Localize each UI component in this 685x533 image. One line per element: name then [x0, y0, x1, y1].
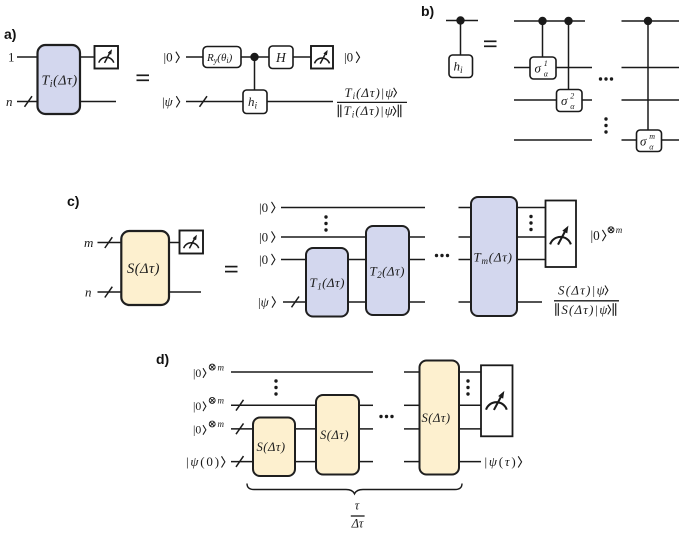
b mini wire	[446, 20, 478, 22]
d bus slash w3	[236, 423, 244, 434]
svg-text:d): d)	[156, 351, 169, 367]
svg-text:S(Δτ): S(Δτ)	[422, 411, 451, 425]
d wire3 seg5	[459, 428, 481, 430]
c wire2 seg2	[409, 236, 425, 238]
gate T_m(dt)	[471, 197, 517, 316]
b wire 2 group1 left	[514, 67, 530, 69]
d wire2 seg2	[359, 404, 373, 406]
fraction c denominator	[556, 303, 616, 317]
svg-text:Ti(Δτ): Ti(Δτ)	[42, 73, 78, 90]
svg-text:T1(Δτ): T1(Δτ)	[310, 275, 345, 291]
svg-text:τ: τ	[355, 499, 360, 513]
b vertical 3	[647, 21, 649, 130]
c wire4 seg3	[409, 301, 425, 303]
wire 1 mid	[80, 56, 94, 58]
b mini vertical wire	[460, 21, 462, 56]
wire n left	[17, 101, 38, 103]
d wire3 seg4	[404, 428, 420, 430]
d bus slash w4	[236, 456, 244, 467]
svg-text:m: m	[218, 396, 225, 406]
svg-text:Ti(Δτ)|ψ: Ti(Δτ)|ψ	[345, 86, 395, 101]
svg-text:m: m	[649, 132, 655, 141]
b control dot 2	[564, 17, 572, 25]
b wire 3 group1 left	[514, 99, 557, 101]
meter box a-right	[311, 46, 333, 69]
svg-text:|0: |0	[193, 366, 201, 380]
c bus slash psi	[292, 297, 300, 308]
fraction tau bar	[351, 515, 365, 517]
c wire4 seg4	[459, 301, 472, 303]
svg-text:|ψ(τ): |ψ(τ)	[485, 454, 518, 469]
ket |psi> input a	[162, 94, 180, 109]
svg-text:1: 1	[8, 50, 15, 65]
b vdots	[604, 117, 607, 133]
wire n right	[80, 101, 116, 103]
wire m left	[98, 242, 122, 244]
svg-text:m: m	[218, 419, 225, 429]
gate Ry(theta_i)	[203, 47, 241, 68]
svg-text:c): c)	[67, 193, 79, 209]
wire a2-3	[293, 56, 311, 58]
d wire4 seg2	[295, 461, 316, 463]
d wire2 seg1	[231, 404, 316, 406]
d wire2 seg3	[404, 404, 420, 406]
svg-text:σ: σ	[640, 133, 647, 148]
c wire3 seg2	[348, 259, 366, 261]
gate sigma_a^2	[557, 90, 583, 112]
fraction a numerator T_i(dt)|psi>	[345, 86, 397, 101]
svg-text:Tm(Δτ): Tm(Δτ)	[474, 249, 513, 265]
meter box c-left	[180, 231, 204, 254]
svg-text:|0: |0	[193, 399, 201, 413]
svg-text:m: m	[616, 225, 623, 235]
d vdots left	[274, 379, 277, 395]
gate sigma_a^1	[530, 57, 556, 79]
control dot	[250, 53, 258, 61]
b wire 1 group2	[622, 20, 680, 22]
b wire 2 group1 right	[556, 67, 592, 69]
ket |0> otimes m output c	[591, 225, 623, 243]
wire a3-2	[267, 101, 333, 103]
ket |0> otimes m d2	[193, 396, 225, 414]
b wire 2 group2	[622, 67, 680, 69]
c wire4 seg5	[517, 301, 542, 303]
bus slash n c	[105, 287, 113, 298]
d wire4 seg5	[459, 461, 481, 463]
fraction c numerator S(dt)|psi>	[558, 284, 608, 298]
svg-text:|ψ(0): |ψ(0)	[186, 454, 221, 469]
svg-text:|ψ: |ψ	[258, 294, 270, 309]
svg-text:|0: |0	[259, 252, 268, 267]
svg-text:S(Δτ): S(Δτ)	[320, 428, 349, 442]
wire 1 left	[17, 56, 38, 58]
ket |psi(tau)> output d	[485, 454, 522, 469]
b control dot 3	[644, 17, 652, 25]
svg-text:Δτ: Δτ	[351, 517, 364, 531]
fraction c bar	[554, 300, 619, 302]
gate h_i b	[449, 55, 473, 78]
svg-text:Ry(θi): Ry(θi)	[206, 52, 233, 65]
svg-text:|0: |0	[259, 200, 268, 215]
ket |0> c3	[259, 252, 275, 267]
c cdots	[435, 254, 449, 257]
d vdots right	[466, 379, 469, 395]
svg-text:|0: |0	[344, 49, 353, 64]
meter box c tall	[546, 201, 577, 268]
c wire2 seg3	[459, 236, 472, 238]
wire a2-2	[241, 56, 269, 58]
wire n right c	[169, 291, 201, 293]
c wire1 seg1	[281, 207, 425, 209]
c wire3 seg1	[281, 259, 306, 261]
fraction a bar	[337, 101, 407, 103]
wire n left c	[98, 291, 122, 293]
c wire2 seg1	[281, 236, 366, 238]
c wire3 seg4	[459, 259, 472, 261]
c wire1 seg2	[459, 207, 472, 209]
d cdots	[379, 415, 393, 418]
ket |0> c2	[259, 229, 275, 244]
svg-text:b): b)	[421, 3, 434, 19]
d wire4 seg1	[231, 461, 253, 463]
gate T_1(dt)	[306, 248, 348, 317]
gate H	[269, 46, 293, 69]
svg-text:n: n	[6, 94, 13, 109]
svg-text:H: H	[275, 50, 287, 65]
d bus slash w2	[236, 400, 244, 411]
gate box S(dt)	[121, 231, 169, 305]
wire m mid c	[169, 242, 180, 244]
svg-text:S(Δτ): S(Δτ)	[127, 261, 160, 277]
meter box a-left	[95, 46, 119, 69]
svg-text:a): a)	[4, 26, 16, 42]
svg-text:1: 1	[544, 59, 548, 68]
svg-text:|0: |0	[164, 49, 173, 64]
svg-text:|0: |0	[591, 228, 601, 243]
equals sign c	[225, 267, 238, 272]
b vertical 1	[542, 21, 544, 57]
b wire 4 group2 left	[622, 139, 638, 141]
d wire4 seg4	[404, 461, 420, 463]
c vdots right	[529, 215, 532, 231]
control vertical wire	[254, 57, 256, 90]
ket |psi> c	[258, 294, 275, 309]
equals sign b	[484, 41, 497, 46]
meter box d	[481, 365, 513, 436]
wire a2-1	[186, 56, 203, 58]
d wire1 seg3	[459, 371, 481, 373]
c vdots left	[324, 215, 327, 231]
c wire3 seg3	[409, 259, 425, 261]
equals sign a	[137, 75, 150, 80]
svg-text:S(Δτ): S(Δτ)	[257, 440, 286, 454]
svg-text:n: n	[85, 285, 92, 300]
ket |0> input a	[164, 49, 180, 64]
b control dot 1	[538, 17, 546, 25]
wire a3-1	[186, 101, 243, 103]
ket |0> otimes m d3	[193, 419, 225, 437]
d wire2 seg4	[459, 404, 481, 406]
gate S1(dt) d	[253, 418, 295, 477]
b vertical 2	[568, 21, 570, 90]
b cdots	[599, 77, 613, 80]
b wire 4 group2 right	[662, 139, 680, 141]
b wire 4 group1	[514, 139, 592, 141]
d wire3 seg1	[231, 428, 253, 430]
d wire1 seg1	[231, 371, 373, 373]
bus slash a3	[200, 96, 208, 107]
ket |0> otimes m d1	[193, 362, 225, 380]
b wire 3 group2	[622, 99, 680, 101]
svg-text:|0: |0	[193, 423, 201, 437]
svg-text:σ: σ	[561, 93, 568, 108]
d wire1 seg2	[404, 371, 420, 373]
svg-text:2: 2	[570, 92, 574, 101]
svg-text:|0: |0	[259, 229, 268, 244]
gate S3(dt) d	[420, 361, 460, 475]
d wire3 seg2	[295, 428, 316, 430]
d wire4 seg3	[359, 461, 373, 463]
b mini control dot	[456, 16, 464, 24]
c wire4 seg2	[348, 301, 366, 303]
gate h_i	[243, 90, 267, 114]
svg-text:Ti(Δτ)|ψ: Ti(Δτ)|ψ	[344, 104, 394, 119]
fraction a denominator ||T_i(dt)|psi>||	[338, 104, 401, 119]
svg-text:T2(Δτ): T2(Δτ)	[370, 264, 405, 280]
ket |psi(0)> d	[186, 454, 225, 469]
ket |0> c1	[259, 200, 275, 215]
svg-text:m: m	[218, 362, 225, 372]
svg-text:|ψ: |ψ	[162, 94, 174, 109]
bus slash on wire n	[25, 96, 33, 107]
svg-text:S(Δτ)|ψ: S(Δτ)|ψ	[558, 284, 606, 298]
gate S2(dt) d	[316, 395, 359, 475]
gate T_2(dt)	[366, 226, 409, 315]
gate box T_i(dt)	[38, 45, 81, 114]
b wire 3 group1 right	[582, 99, 592, 101]
bus slash m	[105, 237, 113, 248]
svg-text:σ: σ	[535, 60, 542, 75]
gate sigma_a^m	[637, 130, 662, 152]
c wire4 seg1	[283, 301, 306, 303]
ket |0> output a	[344, 49, 360, 64]
svg-text:S(Δτ)|ψ: S(Δτ)|ψ	[561, 303, 608, 317]
svg-text:m: m	[84, 235, 93, 250]
d wire3 seg3	[359, 428, 373, 430]
c wire3 seg5	[517, 259, 546, 261]
under brace d	[247, 484, 462, 494]
c wire1 seg3	[517, 207, 546, 209]
b wire 1 group1	[514, 20, 585, 22]
c wire2 seg4	[517, 236, 546, 238]
